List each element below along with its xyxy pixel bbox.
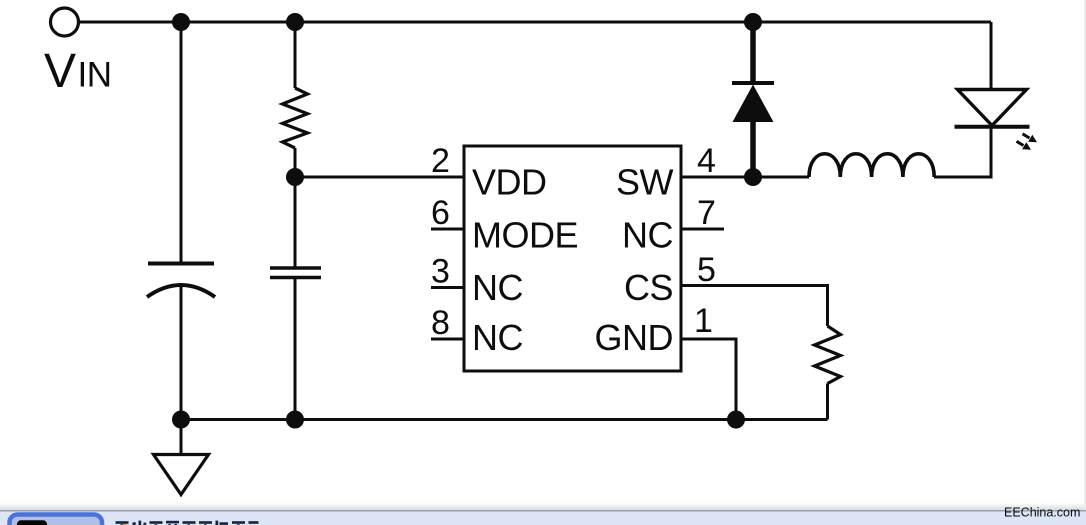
wire C1 to bottom rail xyxy=(180,286,183,420)
svg-text:SW: SW xyxy=(616,162,674,203)
pin 7 stub xyxy=(681,228,724,231)
svg-text:EEChina.com: EEChina.com xyxy=(1004,506,1080,520)
capacitor C1 bottom plate (curved) xyxy=(147,285,215,297)
wire C2 to bottom rail xyxy=(294,278,297,420)
node VDD junction xyxy=(286,168,304,186)
wire C1 branch top xyxy=(180,22,183,262)
footer text (partial) xyxy=(116,521,259,525)
svg-text:1: 1 xyxy=(694,302,713,340)
label VIN xyxy=(44,45,112,98)
svg-text:VDD: VDD xyxy=(472,162,547,203)
svg-text:NC: NC xyxy=(472,317,523,358)
footer bar xyxy=(0,510,1086,525)
svg-text:V: V xyxy=(44,45,76,98)
inductor L1 xyxy=(809,154,934,177)
wire R2 to bottom rail xyxy=(826,384,829,420)
svg-text:NC: NC xyxy=(622,215,673,256)
junction top-mid xyxy=(286,13,304,31)
footer shadow xyxy=(0,503,1086,510)
svg-text:IN: IN xyxy=(78,56,112,95)
wire VDD net xyxy=(295,176,464,179)
footer button xyxy=(10,515,103,525)
junction bottom-left xyxy=(172,411,190,429)
footer icon xyxy=(17,520,47,525)
junction bottom-mid xyxy=(286,411,304,429)
right edge line xyxy=(1084,0,1086,510)
svg-text:3: 3 xyxy=(431,253,450,291)
wire top rail xyxy=(80,21,991,24)
LED arrows xyxy=(1017,134,1038,150)
wire bottom rail xyxy=(181,418,828,421)
svg-text:6: 6 xyxy=(431,194,450,232)
junction top-left xyxy=(172,13,190,31)
wire SW net xyxy=(681,176,991,179)
IC U1 body xyxy=(464,146,681,371)
pin 6 stub xyxy=(431,228,464,231)
capacitor C2 top plate xyxy=(270,266,321,270)
footer emoticon (partial) xyxy=(121,523,127,525)
resistor R1 xyxy=(283,88,308,148)
junction diode bottom / SW node xyxy=(744,168,762,186)
svg-text:8: 8 xyxy=(431,304,450,342)
svg-text:4: 4 xyxy=(697,142,716,180)
svg-text:NC: NC xyxy=(472,267,523,308)
ground xyxy=(154,420,209,495)
junction GND node xyxy=(727,411,745,429)
svg-text:CS: CS xyxy=(624,267,673,308)
pin 8 stub xyxy=(431,338,464,341)
wire C2 branch xyxy=(294,177,297,267)
wire R1 to VDD node xyxy=(294,148,297,177)
wire CS net xyxy=(681,286,828,327)
svg-text:2: 2 xyxy=(431,142,450,180)
pin 3 stub xyxy=(431,286,464,289)
svg-text:5: 5 xyxy=(697,251,716,289)
LED D2 xyxy=(934,22,1030,177)
wire GND net xyxy=(681,339,736,420)
junction diode top xyxy=(744,13,762,31)
terminal VIN xyxy=(51,8,79,36)
svg-text:GND: GND xyxy=(595,317,674,358)
diode D1 xyxy=(732,22,774,177)
capacitor C1 top plate xyxy=(148,262,214,266)
capacitor C2 bottom plate xyxy=(270,276,321,280)
resistor R2 xyxy=(815,326,841,384)
svg-text:7: 7 xyxy=(697,194,716,232)
svg-text:MODE: MODE xyxy=(472,215,578,256)
wire R1 branch top xyxy=(294,22,297,88)
